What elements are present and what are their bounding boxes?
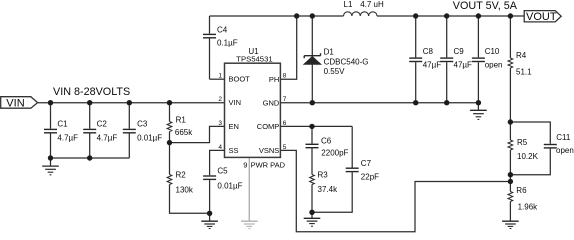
capacitor C9 <box>440 16 453 103</box>
svg-text:CDBC540-G: CDBC540-G <box>324 58 369 67</box>
resistor R3 <box>310 175 315 213</box>
node EN/R1/R2 junction <box>167 140 172 145</box>
svg-text:C7: C7 <box>361 159 372 168</box>
svg-text:37.4k: 37.4k <box>318 185 339 194</box>
svg-text:0.1µF: 0.1µF <box>217 38 238 47</box>
svg-text:EN: EN <box>229 122 239 131</box>
node C8/GND-rail junction <box>413 100 418 105</box>
node COMP/C6 junction <box>309 124 314 129</box>
power pad pin 9 stub (gray) <box>248 158 250 221</box>
svg-text:665k: 665k <box>175 128 193 137</box>
wire PH pin 8 to top rail <box>280 16 296 79</box>
svg-text:0.01µF: 0.01µF <box>217 181 242 190</box>
svg-text:PH: PH <box>269 75 279 84</box>
node C1/VIN-rail junction <box>48 100 53 105</box>
node VIN tag <box>1 97 38 109</box>
node VOUT tag <box>524 11 561 22</box>
node C11 top tap junction <box>508 119 513 124</box>
svg-text:C6: C6 <box>321 136 332 145</box>
svg-text:COMP: COMP <box>257 122 280 131</box>
node C5/R2 ground junction <box>207 211 212 216</box>
capacitor C4 <box>203 16 216 79</box>
svg-text:open: open <box>556 146 574 155</box>
node PH/top-rail junction <box>294 13 299 18</box>
svg-text:R3: R3 <box>318 171 329 180</box>
svg-text:7: 7 <box>283 96 287 103</box>
wire BOOT pin 1 stub <box>210 78 225 80</box>
svg-text:C8: C8 <box>423 47 434 56</box>
wire COMP pin 6 to C6/C7 <box>280 125 352 127</box>
svg-text:GND: GND <box>263 98 280 107</box>
svg-text:R5: R5 <box>517 138 528 147</box>
capacitor C10 <box>472 16 485 103</box>
svg-text:VIN 8-28VOLTS: VIN 8-28VOLTS <box>53 86 130 98</box>
node C3/VIN-rail junction <box>127 100 132 105</box>
svg-text:4.7µF: 4.7µF <box>97 134 118 143</box>
svg-text:VIN: VIN <box>6 97 24 109</box>
wire top rail right segment (L1 to VOUT tag) <box>377 15 524 17</box>
capacitor C3 <box>123 103 136 158</box>
IC U1 TPS54531 body <box>225 63 281 157</box>
resistor R4 <box>508 16 513 122</box>
svg-text:130k: 130k <box>176 186 194 195</box>
capacitor C6 <box>306 126 319 174</box>
ground below R6 <box>502 221 519 228</box>
svg-text:R1: R1 <box>176 115 187 124</box>
svg-text:0.55V: 0.55V <box>324 67 346 76</box>
svg-text:47µF: 47µF <box>423 61 442 70</box>
svg-text:9: 9 <box>243 160 247 169</box>
node C10/GND-rail junction <box>476 100 481 105</box>
svg-text:C9: C9 <box>454 47 465 56</box>
svg-text:C3: C3 <box>137 120 148 129</box>
svg-text:R4: R4 <box>516 51 527 60</box>
svg-text:VOUT 5V, 5A: VOUT 5V, 5A <box>453 0 518 12</box>
svg-text:R2: R2 <box>176 171 187 180</box>
svg-text:22pF: 22pF <box>361 173 379 182</box>
svg-text:4.7µF: 4.7µF <box>57 134 78 143</box>
svg-text:1: 1 <box>218 73 222 80</box>
node feedback tap junction <box>508 179 513 184</box>
ground below C5/R2 junction <box>201 213 218 228</box>
svg-text:8: 8 <box>283 73 287 80</box>
svg-text:C11: C11 <box>556 133 571 142</box>
capacitor C11 <box>510 122 556 175</box>
ground below C1 <box>42 158 59 175</box>
wire GND rail (pin 7 to C10 ground) <box>280 102 478 104</box>
node C2/VIN-rail junction <box>87 100 92 105</box>
node C1 bottom junction <box>48 155 53 160</box>
inductor L1 <box>344 12 378 16</box>
node C2 bottom junction <box>87 155 92 160</box>
capacitor C7 <box>312 126 359 212</box>
node C6/C7 ground junction <box>309 210 314 215</box>
capacitor C8 <box>409 16 422 103</box>
ground below C6/R3 <box>304 212 321 226</box>
svg-text:3: 3 <box>218 120 222 127</box>
resistor R2 <box>167 143 209 214</box>
ground below power pad (gray) <box>241 221 258 228</box>
svg-text:D1: D1 <box>324 47 335 56</box>
wire EN pin 3 to R1/R2 node <box>170 126 225 142</box>
wire input cap bottom rail <box>51 157 130 159</box>
resistor R5 <box>508 122 513 175</box>
node D1/top-rail junction <box>310 13 315 18</box>
wire VIN rail (tag to pin 2) <box>38 102 225 104</box>
node R1/VIN-rail junction <box>167 100 172 105</box>
svg-text:VSNS: VSNS <box>259 146 279 155</box>
capacitor C1 <box>44 103 57 158</box>
node VOUT/R4 junction <box>508 13 513 18</box>
svg-text:C2: C2 <box>97 120 108 129</box>
svg-text:C1: C1 <box>57 120 68 129</box>
svg-text:0.01µF: 0.01µF <box>137 134 162 143</box>
svg-text:4.7 uH: 4.7 uH <box>360 0 384 9</box>
wire R5 bottom to feedback node <box>509 175 511 182</box>
svg-text:10.2K: 10.2K <box>517 152 539 161</box>
svg-text:VIN: VIN <box>229 98 242 107</box>
svg-text:TPS54531: TPS54531 <box>236 54 272 63</box>
node C11 return junction <box>508 172 513 177</box>
svg-text:VOUT: VOUT <box>526 11 557 23</box>
resistor R1 <box>167 103 172 143</box>
svg-text:51.1: 51.1 <box>516 67 532 76</box>
svg-text:5: 5 <box>283 144 287 151</box>
svg-text:C4: C4 <box>217 26 228 35</box>
svg-text:L1: L1 <box>344 0 353 9</box>
svg-text:R6: R6 <box>516 186 527 195</box>
svg-text:2200pF: 2200pF <box>321 148 348 157</box>
svg-text:SS: SS <box>229 146 239 155</box>
capacitor C2 <box>83 103 96 158</box>
svg-text:4: 4 <box>218 144 222 151</box>
node D1/GND-rail junction <box>310 100 315 105</box>
svg-text:2: 2 <box>218 96 222 103</box>
svg-text:C10: C10 <box>485 47 500 56</box>
resistor R6 <box>508 182 513 221</box>
capacitor C5 <box>203 150 224 213</box>
node C9/GND-rail junction <box>444 100 449 105</box>
wire VSNS pin 5 feedback route <box>280 150 510 231</box>
svg-text:BOOT: BOOT <box>229 75 251 84</box>
wire top rail left segment (C4 top to L1) <box>210 15 344 17</box>
svg-text:47µF: 47µF <box>454 61 473 70</box>
node C9/top-rail junction <box>444 13 449 18</box>
svg-text:6: 6 <box>283 120 287 127</box>
svg-text:1.96k: 1.96k <box>518 203 539 212</box>
svg-text:PWR PAD: PWR PAD <box>251 160 286 169</box>
svg-text:open: open <box>485 61 503 70</box>
node C8/top-rail junction <box>413 13 418 18</box>
ground below C10 <box>470 103 487 120</box>
diode D1 schottky <box>304 16 321 103</box>
node C10/top-rail junction <box>476 13 481 18</box>
svg-text:C5: C5 <box>217 166 228 175</box>
